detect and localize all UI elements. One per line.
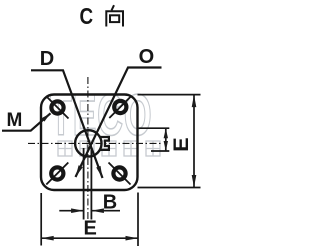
svg-text:E: E (84, 218, 97, 240)
svg-text:M: M (7, 110, 23, 131)
svg-text:D: D (40, 48, 54, 70)
svg-text:E: E (169, 137, 193, 151)
svg-text:O: O (139, 46, 155, 68)
svg-text:B: B (103, 192, 117, 214)
svg-text:C: C (80, 4, 94, 29)
